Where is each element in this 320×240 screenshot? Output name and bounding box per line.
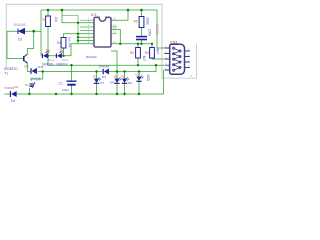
svg-text:MAX232: MAX232 (86, 55, 97, 59)
wire rail B (5, 70, 164, 94)
connector CN1 DB9 (170, 44, 185, 74)
junction at (124.5,71.5) (123, 70, 125, 72)
resistor R3 (150, 48, 155, 59)
junction at (156,65.2) (155, 64, 157, 66)
junction at (33.7,31.2) (32, 30, 35, 33)
junction at (139,71.5) (138, 70, 140, 72)
wire R5 C2 chain (141, 10, 143, 44)
wire vertical x41 to LED row (40, 10, 42, 56)
junction at (138,43.8) (137, 43, 139, 45)
transistor Q1 (24, 54, 28, 63)
junction at (141.5,10) (140, 9, 143, 12)
junction at (139,94) (138, 93, 140, 95)
frame border (6, 4, 162, 79)
wire IC pin rows left connected (78, 37, 94, 40)
wire C1 bridge (71, 65, 73, 94)
junction at (128,10) (127, 9, 130, 12)
resistor R5 (139, 17, 144, 28)
diode D4 (10, 91, 16, 97)
svg-text:4k7: 4k7 (142, 56, 146, 62)
wire R4 chain top (64, 34, 95, 38)
svg-text:D7: D7 (100, 81, 104, 85)
junction at (71.5,94) (70, 93, 72, 95)
svg-text:BC557C: BC557C (4, 67, 18, 71)
svg-text:10k: 10k (54, 17, 58, 23)
svg-text:D9: D9 (128, 81, 132, 85)
IC left pin stubs (80, 20, 94, 30)
junction at (152,43.8) (151, 43, 153, 45)
svg-text:D4: D4 (15, 85, 19, 89)
wire left drop to Q1 base (7, 31, 23, 58)
speaker LS1 (30, 82, 35, 88)
junction at (120.3,43.8) (119, 43, 121, 45)
svg-text:4148: 4148 (38, 65, 44, 69)
wire Q1 emitter down (26, 63, 28, 72)
resistor R1 (46, 16, 51, 27)
diode D2 (31, 68, 37, 74)
junction at (56,94) (55, 93, 57, 95)
LED D5 (42, 51, 48, 58)
wire LED D10 bridge (138, 72, 140, 95)
svg-text:D4: D4 (11, 99, 15, 103)
junction at (63.5,55.8) (62, 55, 64, 57)
svg-text:R5: R5 (134, 20, 138, 24)
svg-text:10n: 10n (36, 78, 41, 82)
svg-text:D2: D2 (25, 65, 29, 69)
wire IC pin1 row to rail riser (111, 10, 128, 20)
svg-text:R1: R1 (43, 18, 47, 22)
svg-text:manda: manda (4, 86, 14, 90)
wire R1 chain (47, 10, 49, 65)
svg-text:100u: 100u (62, 88, 69, 92)
junction at (48,55.8) (47, 55, 49, 57)
junction at (48,10) (47, 9, 50, 12)
junction at (78,33.8) (77, 33, 79, 35)
IC pin numbers right (113, 18, 116, 45)
junction at (78,22.8) (77, 22, 79, 24)
LED D8 (114, 77, 121, 83)
LED D7 (94, 77, 101, 83)
svg-text:GREEN: GREEN (56, 62, 68, 66)
wire top rail (41, 9, 157, 11)
junction at (29.4,94) (28, 93, 30, 95)
wire LED row (48, 44, 94, 56)
wire IC bottom pin to riser2 (111, 51, 117, 72)
capacitor C2 (136, 37, 147, 40)
svg-text:T1: T1 (4, 72, 8, 76)
frame right column (162, 44, 197, 79)
svg-text:5mm: 5mm (48, 58, 55, 62)
wire rail P (48, 64, 164, 66)
svg-text:R2: R2 (130, 51, 134, 55)
capacitor C1 polarized (67, 81, 77, 85)
junction at (138,65.2) (137, 64, 139, 66)
wire IC left bus (62, 16, 78, 44)
wire D2 to P1 (32, 72, 43, 81)
diode D1 (18, 28, 25, 34)
junction at (117,71.5) (116, 70, 118, 72)
LED D9 (122, 77, 129, 83)
junction at (96.5,71.5) (95, 70, 97, 72)
diode D3 (103, 69, 109, 74)
svg-text:D1: D1 (18, 38, 22, 42)
wire LED D7 bridge (96, 72, 98, 95)
wire D1 row (7, 30, 41, 32)
junction at (117,94) (116, 93, 118, 95)
wire LED D9 bridge (124, 72, 126, 95)
wire rail Q (43, 65, 156, 71)
svg-text:1k5 1%: 1k5 1% (68, 37, 72, 48)
wire LS chain (28, 88, 30, 94)
svg-text:R4: R4 (57, 41, 61, 45)
CN1 left pins (165, 48, 170, 70)
svg-text:GREEN: GREEN (42, 62, 54, 66)
junction at (96.5,94) (95, 93, 97, 95)
IC1 body (94, 17, 111, 47)
svg-text:R3: R3 (145, 51, 149, 55)
wire IC pin to riser1 (111, 30, 120, 44)
svg-text:P1: P1 (25, 83, 29, 87)
IC right pin stubs pale (111, 27, 117, 34)
wire IC feed from rail (62, 10, 94, 23)
svg-text:100k: 100k (145, 17, 149, 25)
junction at (71.5,65.2) (70, 64, 72, 66)
wire right riser to DB9 pin1 (157, 10, 164, 48)
svg-text:D6: D6 (60, 49, 64, 53)
wire R4 chain bottom (63, 48, 65, 56)
svg-text:100n: 100n (148, 29, 152, 36)
junction at (42.8,71.5) (42, 70, 44, 72)
svg-text:LED: LED (146, 75, 150, 82)
svg-text:C1: C1 (59, 81, 63, 85)
svg-text:D8: D8 (110, 81, 114, 85)
junction at (78,37.2) (77, 36, 79, 38)
resistor R4 (61, 38, 66, 49)
svg-text:IC1: IC1 (91, 13, 97, 17)
CN1 pin numbers (165, 45, 193, 78)
junction at (124.5,94) (123, 93, 125, 95)
svg-text:CN1: CN1 (170, 40, 178, 44)
wire LED D8 bridge (116, 72, 118, 95)
wire Q1 collector riser with jog (27, 31, 33, 54)
svg-text:4k7: 4k7 (156, 49, 160, 55)
junction at (62,10) (61, 9, 64, 12)
svg-text:1N4148: 1N4148 (14, 23, 26, 27)
IC pin numbers left (88, 18, 90, 45)
wire R3 chain (152, 44, 164, 59)
svg-text:RS232: RS232 (155, 24, 159, 34)
resistor R2 (136, 48, 141, 59)
LED D6 (56, 51, 62, 58)
svg-text:D3: D3 (102, 75, 106, 79)
wire R2 chain (137, 44, 139, 65)
CN1 right pins (185, 51, 190, 68)
svg-text:D5: D5 (46, 49, 50, 53)
junction at (78,40.6) (77, 39, 79, 41)
svg-text:5mm: 5mm (62, 58, 69, 62)
svg-text:D10: D10 (136, 73, 141, 76)
wire y43.8 row (111, 43, 152, 45)
wire D2 row (27, 71, 43, 73)
svg-text:1N4148: 1N4148 (99, 65, 110, 69)
LED D10 (136, 75, 143, 81)
junction at (141.5,43.8) (140, 43, 142, 45)
